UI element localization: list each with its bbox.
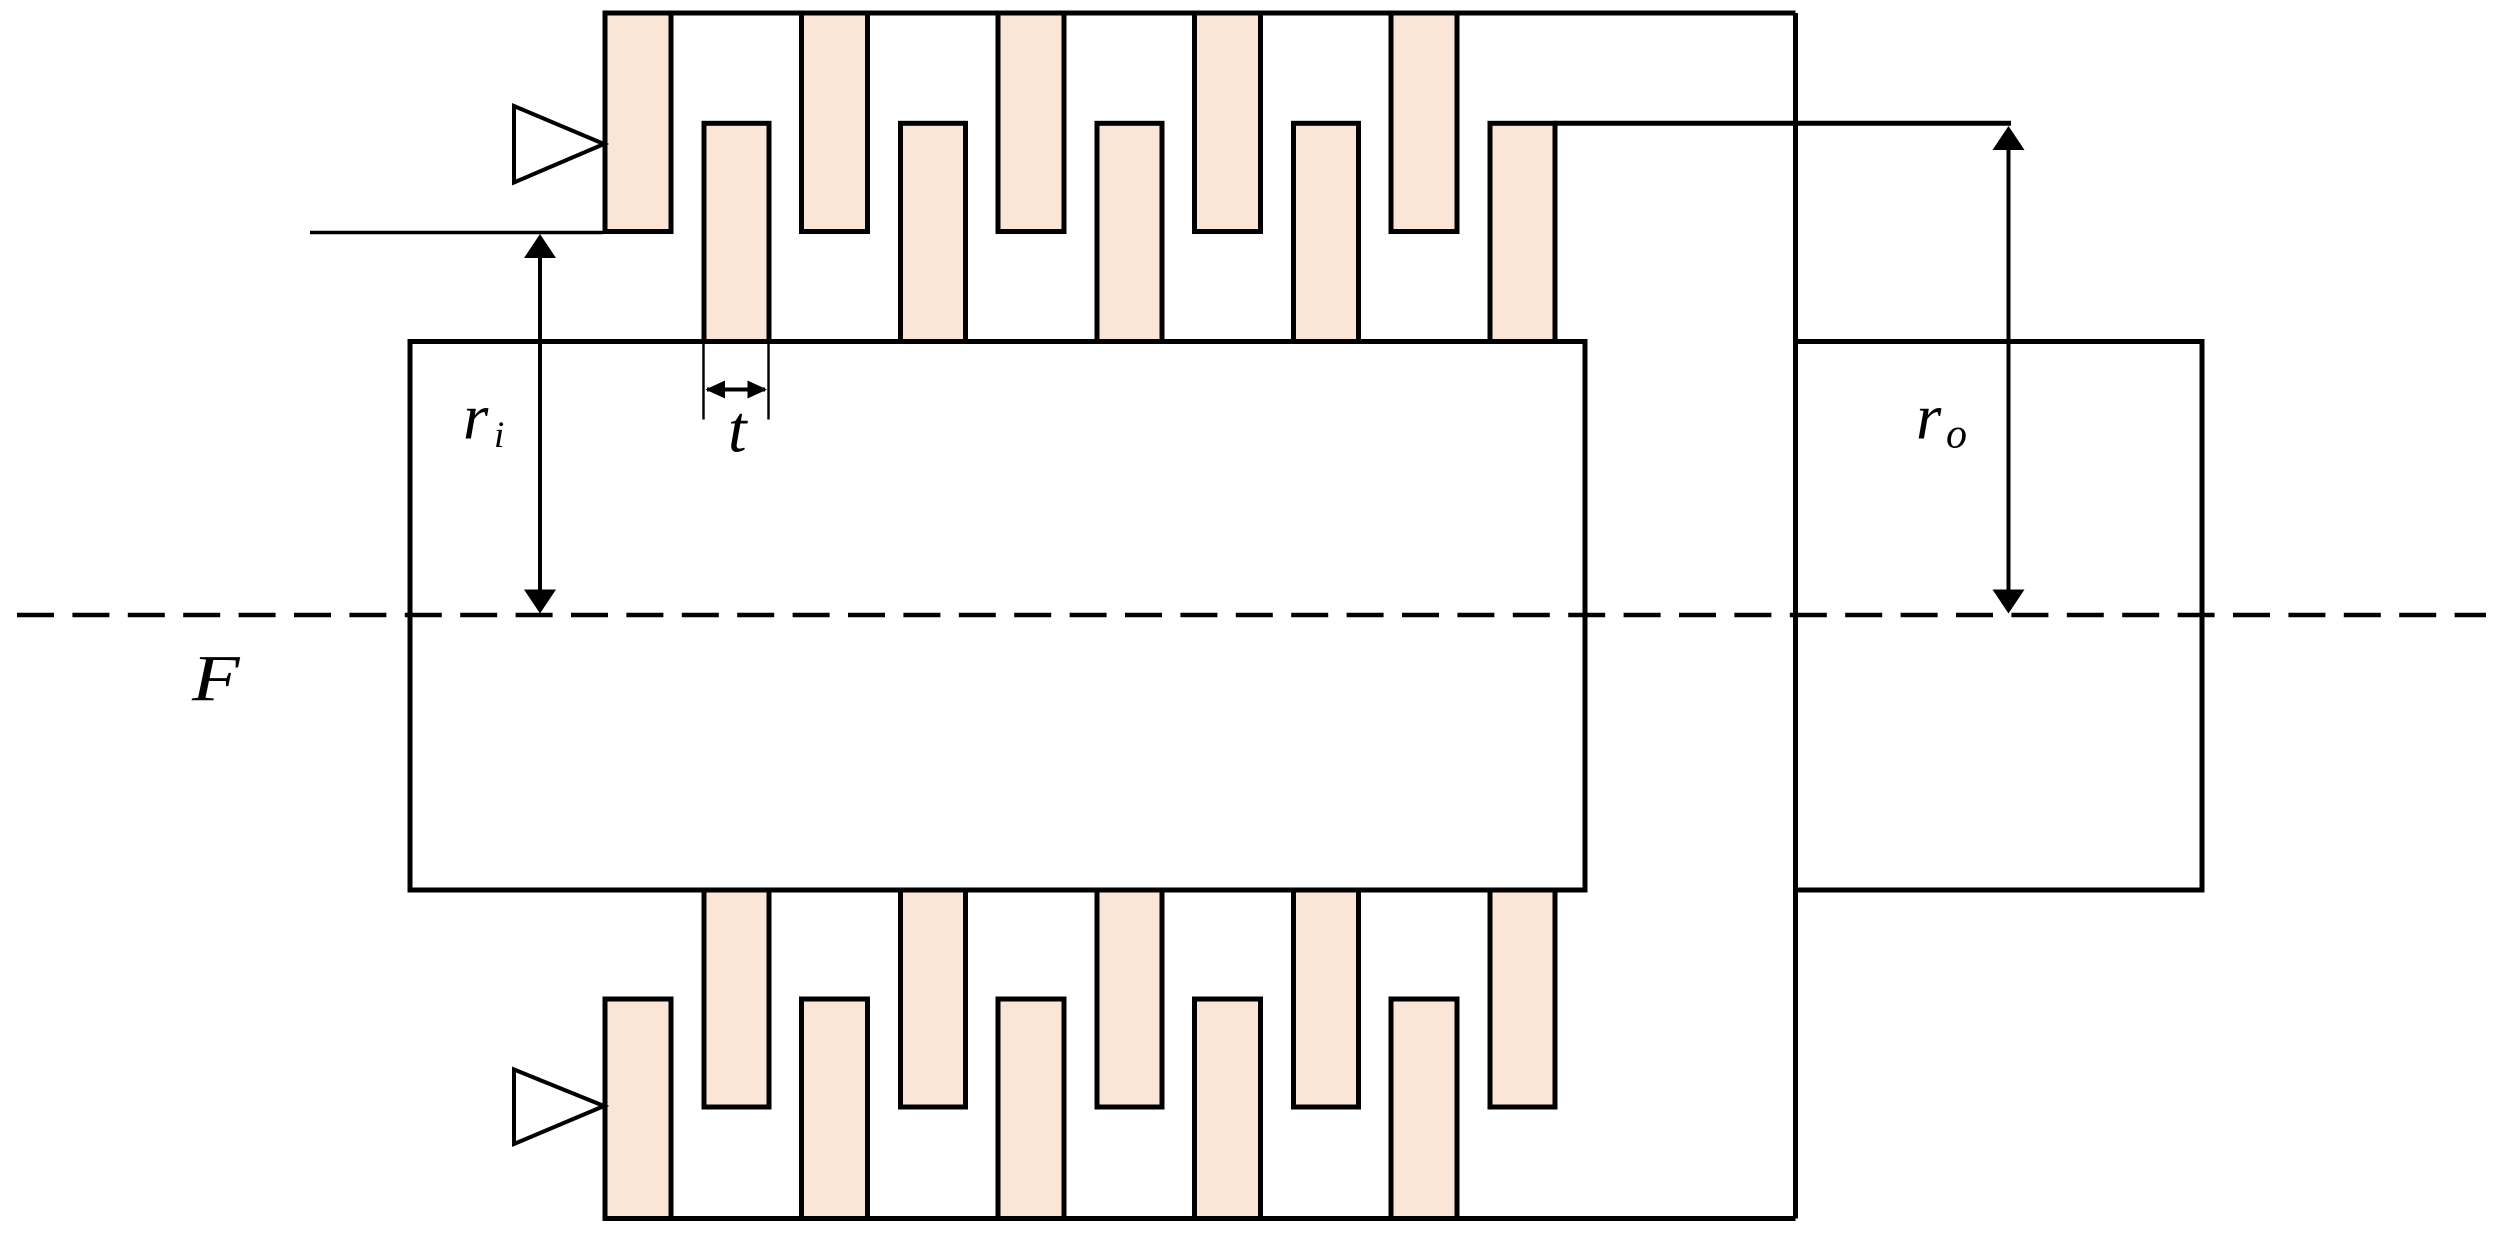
svg-text:r: r bbox=[463, 382, 489, 454]
inner plate I2 (top) bbox=[901, 123, 966, 341]
r_o extension line bbox=[1553, 121, 2011, 126]
t extension line (left) bbox=[702, 344, 704, 420]
outer plate O4 (top) bbox=[1195, 13, 1261, 232]
svg-text:F: F bbox=[191, 642, 241, 715]
outer drum top rim bbox=[603, 11, 1796, 16]
outer drum bottom rim bbox=[603, 1216, 1796, 1221]
outer plate O3 (bottom) bbox=[998, 999, 1064, 1219]
r_i extension line bbox=[310, 231, 603, 235]
svg-text:i: i bbox=[494, 415, 504, 456]
inner plate I3 (top) bbox=[1097, 123, 1162, 341]
r_o dimension arrow bbox=[2007, 130, 2011, 608]
outer plate O1 (bottom) bbox=[605, 999, 671, 1219]
inner plate I3 (bottom) bbox=[1097, 890, 1162, 1107]
force application triangle (bottom) bbox=[514, 1070, 604, 1145]
shaft (inner hub) bbox=[410, 342, 1585, 891]
outer plate O2 (bottom) bbox=[802, 999, 868, 1219]
outer plate O1 (top) bbox=[605, 13, 671, 232]
outer plate O3 (top) bbox=[998, 13, 1064, 232]
svg-text:r: r bbox=[1916, 382, 1942, 454]
outer plate O4 (bottom) bbox=[1195, 999, 1261, 1219]
inner plate I2 (bottom) bbox=[901, 890, 966, 1107]
inner plate I1 (top) bbox=[704, 123, 769, 341]
outer plate O2 (top) bbox=[802, 13, 868, 232]
centerline (axis of rotation, dashed) bbox=[17, 613, 2486, 618]
inner plate I4 (top) bbox=[1294, 123, 1359, 341]
t extension line (right) bbox=[767, 344, 769, 420]
inner plate I4 (bottom) bbox=[1294, 890, 1359, 1107]
inner plate I1 (bottom) bbox=[704, 890, 769, 1107]
outer drum right wall bbox=[1793, 13, 1798, 1219]
inner plate I5 (top) bbox=[1490, 123, 1555, 341]
t dimension arrow bbox=[707, 388, 765, 392]
inner plate I5 (bottom) bbox=[1490, 890, 1555, 1107]
outer plate O5 (bottom) bbox=[1391, 999, 1457, 1219]
outer plate O5 (top) bbox=[1391, 13, 1457, 232]
output flange rectangle (right) bbox=[1796, 342, 2203, 891]
svg-text:t: t bbox=[728, 393, 748, 467]
r_i dimension arrow bbox=[538, 240, 542, 608]
svg-text:o: o bbox=[1946, 412, 1967, 458]
force application triangle (top) bbox=[514, 106, 604, 183]
